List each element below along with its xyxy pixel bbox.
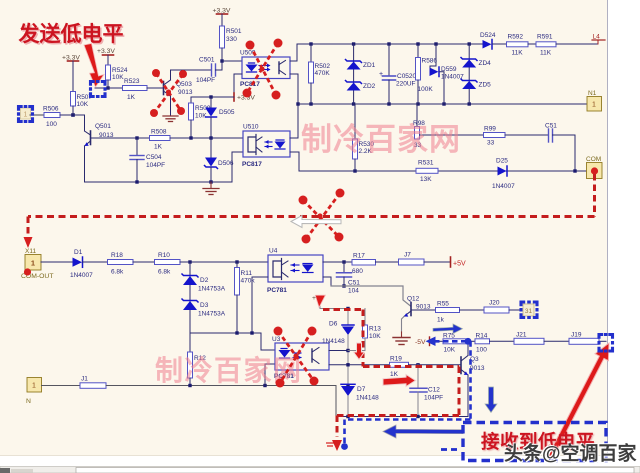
wire R501 to U509 (221, 48, 223, 61)
svg-text:-5V: -5V (415, 339, 426, 346)
svg-text:31: 31 (525, 308, 533, 315)
wire R14 to J21 (490, 340, 515, 342)
bottom rail wire (336, 416, 468, 418)
svg-text:+3.3V: +3.3V (97, 48, 115, 55)
resistor R523 (123, 78, 148, 101)
svg-text:680: 680 (352, 268, 363, 275)
node junction R11 bottom (235, 331, 238, 334)
svg-text:220UF: 220UF (396, 81, 416, 88)
resistor R11 (235, 262, 256, 333)
svg-text:1N4148: 1N4148 (322, 338, 345, 345)
red arrowhead at X11 (24, 237, 33, 248)
ground (Q12) (393, 332, 410, 345)
wire U4 pin4 to R17 (323, 261, 352, 263)
svg-text:6.8k: 6.8k (158, 269, 171, 276)
red dot at COM-OUT (24, 268, 31, 275)
red X over Q503 (154, 73, 183, 113)
diode D25 (492, 158, 515, 191)
svg-text:1N4148: 1N4148 (356, 395, 379, 402)
svg-text:1: 1 (31, 259, 35, 268)
zener diode D2 (182, 262, 226, 333)
power +3.3V (U509 row) (234, 93, 255, 102)
node junction C51/COM (573, 169, 576, 172)
wire Q501 base row to R508 (91, 137, 150, 139)
connector N1 (587, 90, 602, 111)
wire Q13 collector to R75 row (467, 341, 469, 355)
opto-coupler U4 (267, 248, 323, 295)
wire J20 to pin 31 (509, 309, 522, 311)
svg-text:R10: R10 (158, 252, 170, 259)
node junction U3 pin2/N row (263, 384, 266, 387)
blue dashed bracket B3 (pin 31) (521, 302, 537, 318)
wire N row corner down (335, 386, 337, 417)
resistor R524 (106, 65, 128, 81)
svg-text:13K: 13K (420, 176, 432, 183)
resistor R98 (413, 104, 425, 149)
node junction R501/C501/U509 (220, 59, 223, 62)
wire U509 pin2 to +3.3V row (234, 74, 242, 97)
red arrow down (inside receive path) (354, 343, 365, 360)
svg-text:ZD2: ZD2 (363, 83, 376, 90)
svg-text:X11: X11 (25, 248, 36, 255)
blue arrowhead left at -5V (426, 337, 436, 347)
jumper J20 (484, 300, 509, 314)
node junction R11 top (235, 260, 238, 263)
svg-text:9013: 9013 (470, 365, 485, 372)
resistor R530 (353, 104, 375, 171)
blue dash remnants left of receive box (441, 448, 457, 451)
resistor R531 (416, 160, 438, 184)
connector N (26, 378, 42, 406)
svg-text:R524: R524 (112, 67, 128, 74)
svg-text:R11: R11 (241, 270, 253, 277)
net label L4 (556, 34, 605, 45)
resistor R14 (475, 333, 490, 354)
node junction D506/rail (209, 180, 212, 183)
svg-text:9013: 9013 (178, 89, 193, 96)
resistor R17 (352, 253, 376, 276)
blue arrow right (above R75) (433, 324, 463, 334)
wire J19 to output pin (599, 340, 606, 342)
svg-text:330: 330 (226, 36, 237, 43)
svg-text:33: 33 (487, 140, 495, 147)
resistor R591 (536, 34, 556, 57)
wire R17 to J7 (376, 261, 399, 263)
COM row wire (299, 170, 586, 172)
blue dashed receive box (463, 423, 606, 461)
resistor R13 (348, 309, 381, 351)
svg-text:COM: COM (586, 156, 601, 163)
wire +5V to D6 row (320, 303, 348, 309)
node junction mid rail x298 (296, 102, 299, 105)
wire U510 pin3 down to COM row (290, 152, 299, 171)
node junction base/R509 (189, 136, 192, 139)
svg-text:R591: R591 (537, 34, 553, 41)
opto-coupler U3 (272, 336, 329, 380)
wire Q501 emitter down (84, 146, 86, 182)
resistor R18 (108, 252, 134, 276)
power +3.3V (R501) (213, 8, 231, 15)
wire J21 to J19 (544, 340, 569, 342)
resistor R75 (443, 333, 466, 354)
svg-text:R586: R586 (422, 58, 438, 65)
svg-text:10K: 10K (77, 101, 89, 108)
sheet border line (607, 0, 609, 455)
svg-text:ZD5: ZD5 (479, 82, 492, 89)
svg-text:10K: 10K (112, 74, 124, 81)
svg-text:J1: J1 (81, 376, 88, 383)
top rail wire (297, 43, 482, 45)
blue dot at blue path end (341, 443, 348, 450)
wire U3 pin2 to N row (265, 364, 275, 386)
window scrollbar strip (0, 467, 640, 473)
wire R592-R591 (528, 43, 536, 45)
svg-text:1K: 1K (127, 94, 136, 101)
gray wire C31 row to Q12 collector (331, 286, 411, 306)
zener diode D506 (205, 138, 234, 182)
node junction C12 top (416, 363, 419, 366)
node junction R17/C31 (342, 260, 345, 263)
svg-text:PC817: PC817 (242, 161, 262, 168)
wire R509 to base row (190, 120, 192, 138)
node junction Q13 collector (466, 340, 469, 343)
resistor R12 (188, 333, 207, 386)
wire R508 to U510 (170, 137, 243, 139)
zener diode ZD2 (346, 81, 376, 91)
resistor R509 (189, 97, 211, 120)
capacitor C12 (410, 365, 443, 417)
mid rail wire (298, 103, 587, 105)
resistor R586 (416, 44, 438, 104)
svg-text:PC781: PC781 (267, 287, 287, 294)
power -5V label (415, 337, 430, 346)
svg-text:R55: R55 (437, 301, 449, 308)
svg-text:ZD4: ZD4 (479, 60, 492, 67)
red X at path center (303, 193, 340, 239)
emitter rail wire (85, 181, 233, 183)
svg-text:N1: N1 (588, 90, 597, 97)
wire node to U509 pin1 (222, 60, 242, 62)
red arrowhead at +5V (receive) (314, 294, 326, 308)
wire C501 to R501 node (216, 61, 223, 70)
capacitor C51 (545, 123, 557, 143)
svg-text:D3: D3 (200, 302, 209, 309)
svg-text:11K: 11K (512, 50, 524, 57)
svg-text:9013: 9013 (416, 304, 431, 311)
transistor Q501 (85, 115, 114, 146)
wire +3.3V to R524 (107, 55, 109, 65)
wire R18 to R10 (133, 261, 155, 263)
wire C51 to COM node (553, 135, 576, 171)
wire R523 to Q503 base (147, 87, 163, 89)
diode D6 (322, 309, 354, 386)
connector pin 31 (523, 304, 534, 316)
wire D1 to R18 (83, 261, 108, 263)
svg-text:D559: D559 (441, 66, 457, 73)
svg-text:J7: J7 (404, 252, 411, 259)
wire Q12 emitter to ground (402, 317, 405, 333)
diode D1 (70, 249, 93, 279)
svg-text:1N4753A: 1N4753A (198, 286, 226, 293)
red dashed path receive highlight (323, 310, 459, 438)
svg-text:6.8k: 6.8k (111, 269, 124, 276)
svg-text:N: N (26, 398, 31, 405)
node junction C31 bottom (342, 284, 345, 287)
jumper J19 (569, 332, 599, 345)
svg-text:R14: R14 (476, 333, 488, 340)
node junctions bottom rail (346, 415, 419, 418)
opto-coupler U510 (242, 124, 290, 169)
mid row wire (receive) (190, 332, 261, 334)
wire R524 to net (107, 80, 109, 88)
svg-text:R501: R501 (226, 28, 242, 35)
svg-text:10K: 10K (444, 347, 456, 354)
transistor Q13 (461, 356, 485, 376)
svg-text:C504: C504 (146, 154, 162, 161)
svg-text:制冷百家网: 制冷百家网 (301, 122, 461, 157)
svg-text:1k: 1k (437, 317, 445, 324)
node junction base/D505 (209, 136, 212, 139)
power +3.3V (R507) (62, 55, 80, 62)
red annotation: arrow from title to pin (84, 44, 104, 88)
wire U3 pin4 to D6 node (329, 350, 348, 352)
blue dashed bracket B4 (J19 output) (599, 335, 613, 352)
capacitor C0520 electrolytic (379, 44, 417, 104)
wire R10 to U4 (180, 261, 268, 263)
diode D524 (480, 32, 507, 49)
wire R55 to J20 (460, 309, 485, 311)
svg-text:1N4753A: 1N4753A (198, 311, 226, 318)
wire Q13 emitter down (467, 375, 469, 417)
connector pin P1 (left MCU pin) (21, 108, 31, 119)
svg-text:+: + (379, 71, 383, 78)
node junction D2 top (188, 260, 191, 263)
resistor R10 (155, 252, 181, 276)
svg-text:1K: 1K (390, 371, 399, 378)
svg-text:C51: C51 (545, 123, 557, 130)
svg-text:D2: D2 (200, 277, 209, 284)
resistor R592 (507, 34, 529, 57)
ground (Q503) (163, 116, 178, 122)
wire Q503 collector to C501 (171, 70, 212, 80)
zener diode ZD4 (461, 44, 491, 104)
red arrowhead bottom left of box (332, 440, 342, 451)
base row wire to R19 (329, 364, 390, 366)
svg-text:104PF: 104PF (196, 77, 215, 84)
zener diode D3 (182, 299, 226, 318)
wire P1 to R506 (30, 114, 44, 116)
node junction R12/N row (188, 384, 191, 387)
power +5V (receive) (312, 295, 325, 302)
svg-text:D7: D7 (357, 386, 366, 393)
capacitor C504 (130, 138, 165, 182)
svg-text:L4: L4 (593, 34, 601, 41)
wire R99 to C51 (505, 134, 548, 136)
jumper J1 (80, 376, 106, 389)
svg-text:R99: R99 (484, 126, 496, 133)
resistor R55 (436, 301, 460, 324)
svg-text:ZD1: ZD1 (363, 62, 376, 69)
resistor R507 (71, 92, 93, 109)
resistor R502 (309, 44, 331, 104)
svg-text:104: 104 (348, 288, 359, 295)
svg-text:D25: D25 (496, 158, 508, 165)
connector X11 (21, 248, 53, 280)
node junction U4 pin2 (250, 331, 253, 334)
svg-text:U510: U510 (243, 124, 259, 131)
N row wire (106, 385, 336, 387)
wire Q503 emitter to ground (170, 96, 172, 115)
svg-text:J19: J19 (571, 332, 582, 339)
resistor R501 (220, 26, 242, 48)
wire U509 pin4 up to top rail (290, 44, 297, 61)
power +3.3V (R524) (97, 48, 115, 55)
svg-text:U4: U4 (269, 248, 278, 255)
svg-text:C12: C12 (428, 387, 440, 394)
resistor R508 (150, 129, 171, 151)
opto-coupler U509 (240, 50, 290, 89)
wire +3.3V row to R509/D505 (191, 96, 234, 98)
red dot at COM (591, 167, 598, 174)
svg-text:104PF: 104PF (146, 162, 165, 169)
blue dot at R75/Q13 node (465, 338, 472, 345)
svg-text:1N4007: 1N4007 (70, 272, 93, 279)
zener diode ZD5 (461, 79, 491, 89)
svg-text:发送低电平: 发送低电平 (18, 22, 124, 46)
wire R19 to Q13 base (409, 364, 462, 366)
svg-text:R523: R523 (124, 78, 140, 85)
svg-text:1: 1 (24, 112, 28, 119)
zener diode ZD1 (346, 44, 376, 104)
red X over U3 (278, 331, 314, 383)
svg-text:R502: R502 (315, 63, 331, 70)
svg-text:R17: R17 (353, 253, 365, 260)
svg-text:100K: 100K (418, 86, 434, 93)
svg-text:J21: J21 (516, 332, 527, 339)
svg-text:C501: C501 (199, 57, 215, 64)
blue long arrow left (to receive box) (383, 425, 463, 438)
svg-text:D1: D1 (74, 249, 83, 256)
svg-text:头条@空调百家: 头条@空调百家 (504, 442, 638, 465)
wire U4 pin3 to gray row (323, 277, 331, 286)
blue dashed bracket B1 (left pin) (19, 107, 33, 122)
svg-text:U3: U3 (272, 336, 281, 343)
svg-text:1: 1 (592, 102, 596, 109)
red X over U509 (247, 43, 278, 95)
svg-text:1N4007: 1N4007 (492, 183, 515, 190)
wire U509 pin3 / U510 pin4 vertical (290, 74, 298, 138)
wire R75 to R14 (466, 340, 475, 342)
wire N to J1 (42, 385, 81, 387)
wire +3.3V to R501 (221, 14, 223, 26)
wire net to R523 (95, 87, 123, 89)
transistor Q503 (164, 80, 193, 96)
wire -5V to R75 (430, 340, 444, 342)
node junction C504/rail (135, 180, 138, 183)
white long arrow left at path center (291, 216, 341, 228)
svg-text:R18: R18 (111, 252, 123, 259)
svg-text:Q12: Q12 (407, 296, 420, 303)
svg-text:470k: 470k (241, 278, 256, 285)
node junction D505 top (209, 95, 212, 98)
svg-text:100: 100 (46, 121, 57, 128)
wire U4 pin2 down (252, 277, 268, 333)
node junctions top rail (309, 42, 471, 45)
diode D7 (341, 384, 379, 416)
wire row to U3 pin1 (261, 333, 275, 350)
svg-text:R508: R508 (151, 129, 167, 136)
svg-text:D505: D505 (219, 109, 235, 116)
capacitor C51b (337, 262, 361, 295)
blue arrow down (right of Q13) (485, 387, 497, 413)
node junction R524/net (106, 86, 109, 89)
capacitor C501 (196, 57, 216, 85)
wire R506 to Q501 collector node (60, 114, 85, 116)
ground (D506 rail) (203, 182, 219, 195)
svg-text:J20: J20 (489, 300, 500, 307)
diode D559 (430, 44, 465, 104)
node junctions mid rail (309, 102, 471, 105)
jumper J7 (399, 252, 425, 266)
resistor R19 (390, 356, 409, 379)
svg-text:R506: R506 (43, 106, 59, 113)
node junctions D6 line (346, 307, 349, 387)
svg-text:Q501: Q501 (95, 123, 111, 130)
svg-text:1K: 1K (154, 144, 163, 151)
svg-text:R592: R592 (508, 34, 524, 41)
wire Q12 base to R55 (411, 309, 436, 311)
svg-text:11K: 11K (540, 50, 552, 57)
svg-text:104PF: 104PF (424, 395, 443, 402)
svg-text:R13: R13 (369, 326, 381, 333)
svg-text:R531: R531 (418, 160, 434, 167)
jumper J21 (514, 332, 544, 345)
svg-text:10K: 10K (369, 333, 381, 340)
wire +3.3V to R507 (72, 61, 74, 92)
diode D505 (205, 97, 235, 138)
node junction R530 bottom (353, 169, 356, 172)
wire X11 to D1 (41, 261, 73, 263)
svg-text:10K: 10K (195, 113, 207, 120)
transistor Q12 (404, 296, 431, 317)
svg-text:D524: D524 (480, 32, 496, 39)
red dashed path COM to X11 (28, 174, 595, 238)
svg-text:C0520: C0520 (397, 73, 417, 80)
power +5V (J7) (424, 257, 466, 268)
node junction base/C504 (135, 136, 138, 139)
connector COM (586, 156, 602, 179)
svg-text:R19: R19 (390, 356, 402, 363)
wire R98 to R99 (420, 134, 484, 136)
blue dashed path along -5V row (345, 341, 471, 444)
node junction R507/R506 (71, 113, 75, 117)
svg-text:470K: 470K (315, 70, 331, 77)
svg-text:PC817: PC817 (240, 81, 260, 88)
resistor R506 (43, 106, 60, 129)
wire rail to U510 pin2 (232, 152, 243, 182)
svg-text:1: 1 (32, 383, 36, 390)
svg-text:100: 100 (476, 347, 487, 354)
blue dashed bracket B2 (send net) (91, 82, 106, 97)
svg-text:D6: D6 (329, 321, 338, 328)
wire R507 to node (72, 106, 74, 115)
svg-text:+5V: +5V (453, 261, 466, 268)
red arrow right (inside receive path) (383, 375, 416, 387)
resistor R99 (484, 126, 506, 147)
big red arrow to J19 output (544, 340, 616, 461)
